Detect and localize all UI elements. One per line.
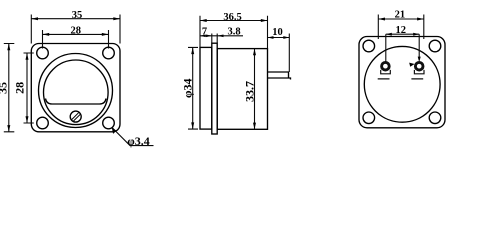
mounting hole bottom-right bbox=[103, 117, 115, 129]
arrowheads dim 35 horizontal bbox=[31, 17, 38, 20]
arrowheads dim 33.7 bbox=[253, 49, 256, 56]
dimensions of right view bbox=[378, 15, 424, 62]
arrowheads dim phi34 bbox=[191, 47, 194, 54]
flange plate (rounded square) bbox=[359, 37, 445, 128]
arrowhead onto pin 2 (right) bbox=[409, 63, 414, 67]
dim 28 horizontal: extension lines bbox=[43, 30, 109, 49]
mounting hole bottom-left bbox=[363, 112, 375, 124]
center screw (hatched) bbox=[70, 111, 81, 122]
svg-text:33.7: 33.7 bbox=[243, 81, 257, 102]
dim phi34: dimension line + end ticks bbox=[188, 47, 198, 129]
dim 21: extension lines bbox=[378, 15, 424, 40]
main body cylinder bbox=[217, 49, 267, 130]
arrowheads dim 10 bbox=[268, 36, 274, 39]
leader line phi3.4 bbox=[112, 128, 154, 146]
mounting hole bottom-right bbox=[429, 112, 441, 124]
dim 28 vertical: dimension line + end ticks bbox=[24, 53, 34, 123]
svg-text:28: 28 bbox=[12, 82, 26, 94]
svg-text:36.5: 36.5 bbox=[223, 12, 241, 23]
arrowheads dim 12 bbox=[386, 33, 392, 36]
insert flat chord bbox=[46, 99, 107, 105]
contact pin 1 (left) bbox=[378, 62, 391, 79]
dim 7 / 3.8: dimension line with landing under 3.8 bbox=[200, 35, 243, 37]
shell outer circle bbox=[39, 54, 113, 128]
svg-text:35: 35 bbox=[0, 82, 10, 94]
mounting hole top-left bbox=[37, 47, 49, 59]
svg-text:35: 35 bbox=[72, 10, 83, 21]
dimensions of left view bbox=[4, 15, 154, 146]
svg-text:3.8: 3.8 bbox=[227, 27, 240, 38]
arrowheads dim 21 bbox=[378, 18, 385, 21]
dim 36.5: extension lines bbox=[200, 16, 268, 49]
dim 35 horizontal: dimension line bbox=[31, 18, 120, 20]
rear terminal tab bbox=[268, 72, 291, 80]
dim 21: dimension line bbox=[378, 18, 424, 20]
arrowhead onto pin 2 (down) bbox=[418, 57, 421, 63]
svg-text:12: 12 bbox=[396, 25, 407, 36]
svg-text:28: 28 bbox=[71, 26, 82, 37]
mounting hole top-right bbox=[429, 40, 441, 52]
dim 10: right extension line bbox=[288, 34, 290, 73]
arrowheads dim 7 / 3.8 bbox=[200, 35, 206, 38]
flange plate (rounded square) bbox=[31, 44, 120, 132]
dim 36.5: dimension line bbox=[200, 20, 268, 22]
mounting hole top-right bbox=[103, 47, 115, 59]
dim 28 horizontal: dimension line bbox=[43, 33, 109, 35]
dim 35 horizontal: extension lines bbox=[31, 15, 120, 44]
mounting hole top-left bbox=[363, 40, 375, 52]
dim 12: extension line to pin 2 bbox=[418, 34, 420, 58]
shell inner circle bbox=[44, 60, 109, 125]
svg-text:10: 10 bbox=[272, 27, 283, 38]
front lip cylinder bbox=[200, 47, 212, 129]
dim 35 vertical: dimension line + end ticks bbox=[4, 44, 15, 132]
arrowhead leader phi3.4 bbox=[112, 127, 117, 134]
flange plate (side) bbox=[212, 43, 217, 134]
dim 33.7: dimension line bbox=[254, 49, 256, 130]
mounting hole bottom-left bbox=[37, 117, 49, 129]
dim 12: dimension line bbox=[386, 33, 419, 35]
arrowheads dim 28 horizontal bbox=[43, 33, 50, 36]
svg-text:φ3.4: φ3.4 bbox=[127, 134, 150, 148]
svg-text:21: 21 bbox=[395, 9, 406, 20]
plug body circle bbox=[364, 46, 440, 122]
arrowheads dim 35 vertical bbox=[7, 44, 10, 51]
dim 7 / 3.8: flange extension lines bbox=[212, 34, 217, 44]
arrowheads dim 28 vertical bbox=[26, 53, 29, 60]
contact pin 2 (right) bbox=[411, 62, 424, 79]
dim 10: dimension line bbox=[268, 37, 290, 39]
dimensions of middle view bbox=[188, 16, 289, 130]
svg-text:φ34: φ34 bbox=[180, 78, 194, 98]
arrowheads dim 36.5 bbox=[200, 19, 207, 22]
dim 12: extension line to pin 1 bbox=[385, 34, 387, 61]
svg-text:7: 7 bbox=[202, 27, 207, 38]
